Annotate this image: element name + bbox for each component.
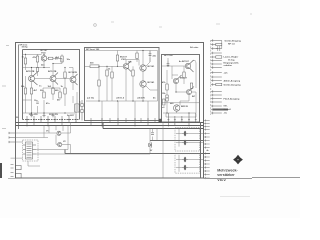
svg-text:Gestell: Gestell: [224, 108, 232, 111]
thermistor box B (dashed): [175, 154, 200, 173]
left edge small marks: [2, 46, 9, 129]
amplifier block 2 box: [85, 48, 160, 121]
box A component 1: [182, 131, 188, 136]
inner frame line: [18, 45, 20, 130]
block1 value labels: [21, 56, 75, 117]
left edge connector stubs: [9, 132, 15, 143]
left edge scan shadow: [0, 163, 2, 178]
inter-block labels: [80, 102, 82, 104]
svg-text:NF-V 500: NF-V 500: [164, 55, 173, 57]
block2 bottom drops: [102, 101, 148, 121]
mid bottom label: [150, 150, 153, 152]
transistor V502: [173, 75, 181, 84]
V102 label: [26, 71, 35, 73]
svg-text:Geräte-Eingang: Geräte-Eingang: [225, 39, 242, 42]
box A component 2: [182, 140, 188, 145]
top margin registration marks: [94, 14, 252, 27]
connector area label: [190, 46, 199, 49]
V104 label: [69, 72, 78, 74]
block2 voltage labels: [86, 56, 157, 100]
inter-block coupling components: [81, 100, 83, 121]
block1 junction dots: [25, 54, 66, 114]
V504 label: [181, 106, 189, 108]
page bottom scan line left: [8, 178, 15, 180]
transistor V2 (bottom-left): [58, 143, 62, 147]
V503 label: [192, 96, 196, 98]
svg-text:4x BC107: 4x BC107: [179, 60, 190, 63]
box B wires: [176, 155, 204, 172]
V302 label: [148, 66, 156, 68]
input resistor R301: [90, 65, 99, 68]
block2 junction dots: [98, 50, 143, 102]
block1 capacitor C105: [36, 102, 39, 103]
transistor V103: [50, 73, 58, 85]
block1 bottom value clusters: [29, 114, 59, 116]
top-right pin sub-network: [216, 41, 222, 52]
transistor V1 (bottom-left): [57, 131, 61, 135]
transistor V303: [140, 81, 146, 87]
block2 bottom pin ticks: [90, 119, 156, 126]
svg-text:0V/-: 0V/-: [224, 106, 228, 108]
transistor V102: [29, 72, 38, 85]
block3 value labels: [162, 81, 174, 109]
transistor V504: [174, 105, 180, 111]
block1 bottom pin ticks: [26, 114, 77, 126]
svg-text:100 Sp: 100 Sp: [22, 46, 29, 48]
svg-text:Lautst.-Regler: Lautst.-Regler: [224, 56, 239, 59]
connector labels: [224, 39, 242, 114]
block3 resistors: [163, 72, 193, 105]
extra block1 labels: [39, 86, 61, 102]
block2 resistors: [98, 53, 138, 86]
capacitor (bottom mid): [151, 133, 154, 135]
block3 input capacitor: [167, 61, 170, 67]
block1 sub label: [41, 64, 45, 66]
block1 resistor R104 (horizontal): [48, 57, 53, 59]
transistor V302: [140, 65, 146, 71]
svg-text:Abhör-Ausgang: Abhör-Ausgang: [224, 79, 241, 82]
svg-text:BC107B: BC107B: [48, 71, 57, 73]
svg-text:Sp1017: Sp1017: [67, 115, 75, 117]
block2 capacitor C301: [149, 54, 152, 56]
box B component 2: [182, 165, 188, 170]
V103 label: [48, 71, 57, 73]
block2 wires: [85, 51, 158, 102]
block1 resistors: [24, 56, 66, 98]
relay output wires: [28, 150, 150, 167]
bus wire 1: [16, 122, 204, 124]
transistor V301: [123, 61, 131, 72]
relay box (dashed): [23, 140, 39, 161]
ground symbols block1: [30, 113, 55, 117]
inter-block connector mark: [159, 119, 162, 123]
long wires to right column: [65, 141, 210, 154]
svg-text:Eingangswahl-: Eingangswahl-: [224, 62, 240, 64]
frame-edge pins lower right: [204, 119, 210, 179]
svg-text:BD135: BD135: [181, 106, 189, 108]
V501 label: [179, 60, 190, 63]
amplifier block 1 box: [23, 50, 80, 120]
pin resistor 2: [216, 56, 222, 58]
thermistor box A (dashed): [175, 128, 200, 151]
block 3 label: [164, 55, 173, 57]
bottom-left labels: [46, 130, 66, 142]
left connector socket 2: [11, 173, 22, 178]
block3 bottom pin ticks: [167, 113, 196, 126]
svg-text:St.Leiste: St.Leiste: [190, 46, 199, 49]
lower right pin label: [207, 149, 210, 152]
block1 output box: [75, 104, 79, 112]
transistor V101: [41, 56, 47, 62]
left wire to relay: [11, 133, 57, 158]
mid vertical wires: [150, 122, 163, 178]
transistor V501: [185, 60, 193, 72]
svg-text:NF-Verst 300: NF-Verst 300: [86, 48, 100, 51]
block1 corner label: [16, 117, 19, 119]
bus wire 2: [16, 125, 204, 127]
V101 label: [41, 50, 49, 54]
connector rail: [210, 40, 212, 115]
R301 label: [90, 63, 94, 65]
V303 label: [148, 81, 156, 84]
title text: [217, 169, 238, 182]
svg-text:verstärker: verstärker: [217, 173, 235, 177]
svg-text:1k log.: 1k log.: [228, 60, 235, 62]
block 2 label: [86, 48, 100, 51]
pin resistor 1: [216, 43, 222, 45]
page bottom scan line right: [204, 178, 301, 179]
svg-text:Flach-Ausgang: Flach-Ausgang: [224, 97, 240, 100]
V301 label: [120, 57, 128, 61]
svg-text:NF 1-6: NF 1-6: [228, 43, 235, 45]
box B component 1: [182, 157, 188, 162]
relay inner body: [23, 142, 36, 159]
transistor V503: [187, 86, 195, 94]
pin resistor 3: [216, 83, 222, 85]
bus junction dots: [26, 122, 189, 127]
transistor V104: [70, 74, 78, 85]
svg-text:u39 11.5: u39 11.5: [116, 98, 125, 100]
bus wire 3: [103, 123, 204, 129]
box A wires: [176, 129, 204, 147]
block 1 label: [20, 44, 29, 49]
block1 capacitor C104: [56, 57, 57, 60]
svg-text:BC161: BC161: [148, 66, 156, 68]
V502 label: [180, 77, 188, 79]
left connector socket 1: [11, 165, 22, 170]
svg-text:BC107B: BC107B: [26, 71, 35, 73]
pin dark bar: [213, 109, 228, 111]
left vertical wire: [15, 130, 17, 178]
amplifier block 3 box: [162, 55, 200, 123]
connector pins: [211, 39, 222, 114]
svg-text:u35 40V: u35 40V: [137, 97, 145, 100]
diode (bottom mid): [149, 142, 152, 147]
manufacturer logo (diamond): [233, 155, 243, 165]
faint bottom-right marks: [220, 196, 250, 198]
block1 wires: [23, 54, 77, 113]
inner right vertical wire: [200, 123, 202, 179]
outer frame: [16, 43, 204, 179]
block3 junction dots: [166, 65, 189, 113]
svg-text:ju2 10u: ju2 10u: [86, 98, 95, 100]
block3 wires: [161, 58, 200, 117]
svg-text:schalter: schalter: [224, 64, 233, 67]
svg-text:Geräte-Ausgang: Geräte-Ausgang: [224, 83, 242, 86]
bottom-left wires: [44, 122, 71, 154]
svg-text:BC141: BC141: [148, 81, 156, 84]
svg-text:BC: BC: [192, 96, 196, 98]
